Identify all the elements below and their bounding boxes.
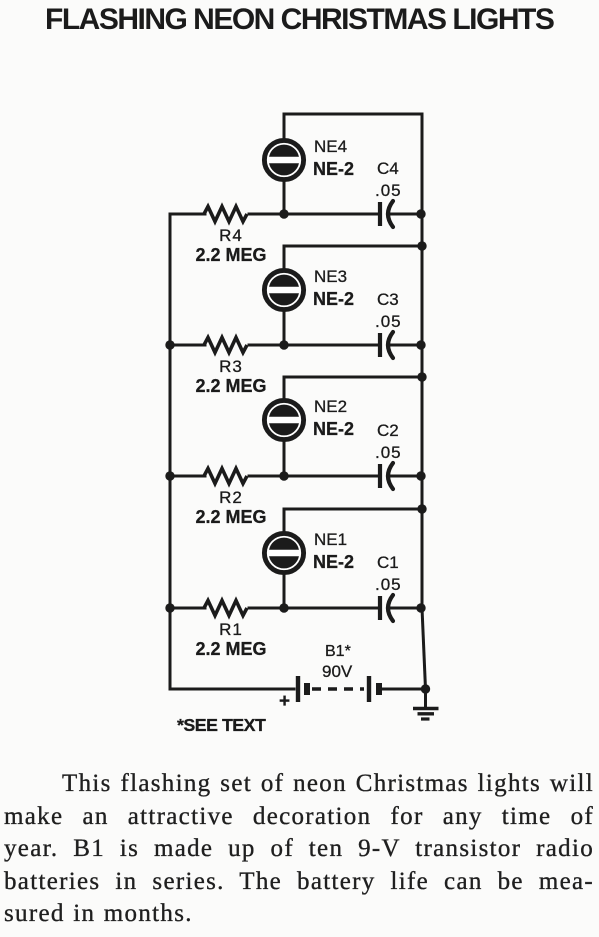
wire rail C1 to right rail	[390, 607, 422, 610]
value 2.2 MEG of R4	[195, 245, 266, 265]
svg-text:R4: R4	[219, 226, 243, 245]
value .05 of C3	[375, 312, 402, 331]
wire rail R1 middle segment	[249, 607, 379, 610]
svg-text:R3: R3	[219, 357, 243, 376]
junction C3 at right rail	[416, 340, 425, 349]
junction ground node	[421, 684, 430, 693]
battery + sign	[279, 691, 290, 712]
label NE3	[314, 267, 347, 286]
wire top of NE1 to right rail	[284, 508, 422, 511]
junction node NE4/R4/C4	[279, 209, 288, 218]
svg-text:.05: .05	[375, 312, 402, 331]
value .05 of C1	[375, 575, 402, 594]
wire NE2 top lead	[283, 377, 286, 401]
svg-text:2.2 MEG: 2.2 MEG	[195, 376, 266, 396]
wire rail R4 middle segment	[249, 213, 379, 216]
wire rail R3 middle segment	[249, 344, 379, 347]
wire B1 negative to ground node	[382, 688, 426, 691]
label NE-2 of NE1	[313, 552, 354, 572]
label R3	[219, 357, 243, 376]
svg-text:C1: C1	[377, 553, 399, 572]
junction R2 at left rail	[165, 471, 174, 480]
svg-text:NE-2: NE-2	[313, 159, 354, 179]
wire top of NE3 to right rail	[284, 245, 422, 248]
neon lamp NE3 (NE-2)	[264, 270, 303, 309]
label NE-2 of NE4	[313, 159, 354, 179]
wire NE4 bottom lead	[283, 179, 286, 214]
label NE2	[314, 397, 347, 416]
capacitor C3 .05	[380, 332, 393, 358]
svg-text:R1: R1	[219, 620, 243, 639]
svg-text:B1*: B1*	[325, 643, 351, 660]
junction C4 at right rail	[416, 209, 425, 218]
svg-text:.05: .05	[375, 443, 402, 462]
label R4	[219, 226, 243, 245]
svg-text:2.2 MEG: 2.2 MEG	[195, 639, 266, 659]
svg-text:NE2: NE2	[314, 397, 347, 416]
neon lamp NE1 (NE-2)	[264, 533, 303, 572]
svg-text:2.2 MEG: 2.2 MEG	[195, 507, 266, 527]
label R2	[219, 488, 243, 507]
wire rail C3 to right rail	[390, 344, 422, 347]
label R1	[219, 620, 243, 639]
wire right rail upper (ground bus)	[421, 114, 424, 608]
wire rail R3 left segment	[170, 344, 205, 347]
junction R3 at left rail	[165, 340, 174, 349]
wire NE3 bottom lead	[283, 309, 286, 345]
svg-text:90V: 90V	[322, 662, 353, 681]
value 2.2 MEG of R1	[195, 639, 266, 659]
svg-text:C3: C3	[377, 290, 399, 309]
label NE-2 of NE2	[313, 419, 354, 439]
svg-text:2.2 MEG: 2.2 MEG	[195, 245, 266, 265]
junction NE1 top at right rail	[417, 504, 426, 513]
junction node NE3/R3/C3	[279, 340, 288, 349]
wire top of NE4 to right rail	[284, 113, 422, 116]
wire rail R4 left segment	[170, 213, 205, 216]
ground symbol	[413, 689, 439, 719]
junction node NE2/R2/C2	[279, 471, 288, 480]
svg-text:NE3: NE3	[314, 267, 347, 286]
capacitor C4 .05	[380, 201, 393, 227]
wire rail R1 left segment	[170, 607, 205, 610]
svg-text:NE-2: NE-2	[313, 419, 354, 439]
wire rail R2 left segment	[170, 475, 205, 478]
svg-text:+: +	[279, 691, 290, 712]
title FLASHING NEON CHRISTMAS LIGHTS	[45, 3, 553, 37]
resistor R1 2.2 MEG	[204, 601, 247, 616]
caption paragraph	[4, 768, 594, 931]
svg-text:NE-2: NE-2	[313, 289, 354, 309]
junction C2 at right rail	[416, 471, 425, 480]
svg-text:NE-2: NE-2	[313, 552, 354, 572]
svg-text:.05: .05	[375, 181, 402, 200]
svg-text:R2: R2	[219, 488, 243, 507]
label C4	[377, 159, 399, 178]
label NE1	[314, 530, 347, 549]
junction C1 at right rail	[416, 603, 425, 612]
label C2	[377, 421, 399, 440]
neon lamp NE2 (NE-2)	[264, 400, 303, 439]
wire rail R2 middle segment	[249, 475, 379, 478]
capacitor C2 .05	[380, 463, 393, 489]
resistor R4 2.2 MEG	[204, 207, 247, 222]
battery B1 90V	[298, 676, 379, 702]
svg-text:.05: .05	[375, 575, 402, 594]
value 90V	[322, 662, 353, 681]
wire right rail lower (ground bus)	[422, 608, 426, 689]
svg-text:C4: C4	[377, 159, 399, 178]
junction R1 at left rail	[165, 603, 174, 612]
label NE4	[314, 137, 347, 156]
wire rail C4 to right rail	[390, 213, 422, 216]
label NE-2 of NE3	[313, 289, 354, 309]
wire NE2 bottom lead	[283, 439, 286, 476]
wire NE1 bottom lead	[283, 572, 286, 608]
wire NE1 top lead	[283, 509, 286, 534]
capacitor C1 .05	[380, 595, 393, 621]
value .05 of C4	[375, 181, 402, 200]
junction NE3 top at right rail	[417, 241, 426, 250]
resistor R2 2.2 MEG	[204, 469, 247, 484]
neon lamp NE4 (NE-2)	[264, 140, 303, 179]
svg-text:NE4: NE4	[314, 137, 347, 156]
wire top of NE2 to right rail	[284, 376, 422, 379]
resistor R3 2.2 MEG	[204, 338, 247, 353]
junction NE2 top at right rail	[417, 372, 426, 381]
value .05 of C2	[375, 443, 402, 462]
label C1	[377, 553, 399, 572]
wire NE4 top lead	[283, 114, 286, 141]
label C3	[377, 290, 399, 309]
svg-text:NE1: NE1	[314, 530, 347, 549]
svg-text:C2: C2	[377, 421, 399, 440]
junction node NE1/R1/C1	[279, 603, 288, 612]
wire bottom rail to B1 positive	[170, 688, 294, 691]
wire NE3 top lead	[283, 246, 286, 271]
wire rail C2 to right rail	[390, 475, 422, 478]
label B1*	[325, 643, 351, 660]
value 2.2 MEG of R2	[195, 507, 266, 527]
value 2.2 MEG of R3	[195, 376, 266, 396]
wire left rail (B1 + bus)	[169, 214, 172, 689]
note *SEE TEXT	[177, 715, 266, 735]
svg-text:*SEE TEXT: *SEE TEXT	[177, 715, 266, 735]
